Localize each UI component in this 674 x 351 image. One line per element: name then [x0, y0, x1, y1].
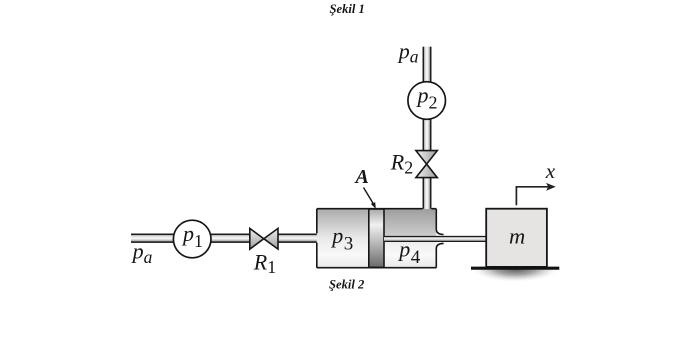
svg-text:m: m [509, 224, 525, 249]
pressure gauge p1 [173, 220, 211, 258]
cylinder upper-right chamber shading [384, 209, 436, 235]
svg-text:A: A [354, 166, 369, 188]
valve R2 [416, 151, 437, 178]
svg-text:R1: R1 [253, 249, 276, 277]
wire: vertical pipe upper segment (atmosphere to valve R2) [423, 47, 432, 151]
wire: pipe segment between valve R1 and cylinder [278, 234, 319, 243]
cylinder body fill [317, 209, 437, 268]
piston A [369, 209, 384, 267]
cylinder body outline [317, 209, 444, 268]
svg-text:x: x [545, 159, 556, 183]
displacement arrow x [516, 183, 555, 205]
leader arrow from A to piston [364, 188, 376, 209]
ground [471, 267, 559, 270]
ground shadow under mass [471, 255, 561, 282]
svg-text:R2: R2 [390, 149, 413, 177]
mass m [486, 209, 547, 267]
valve R1 [250, 228, 278, 249]
svg-text:pa: pa [397, 38, 419, 66]
svg-text:Şekil 2: Şekil 2 [329, 278, 365, 292]
wire: vertical pipe lower segment (valve R2 to cylinder) [423, 177, 432, 209]
svg-text:Şekil 1: Şekil 1 [330, 2, 365, 16]
pressure gauge p2 [408, 82, 446, 120]
piston rod [384, 236, 487, 242]
wire: supply pipe left segment [131, 234, 250, 243]
